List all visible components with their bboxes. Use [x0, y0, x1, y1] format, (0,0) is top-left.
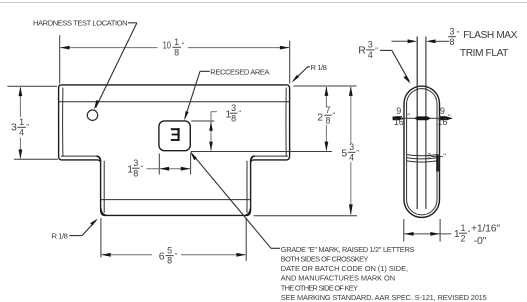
svg-text:R: R [358, 45, 366, 57]
front view outline [59, 85, 290, 216]
svg-text:": " [457, 29, 460, 38]
svg-text:1: 1 [460, 223, 465, 233]
page border top [0, 2, 527, 4]
svg-text:R 1/8: R 1/8 [52, 232, 68, 241]
svg-text:TRIM FLAT: TRIM FLAT [460, 48, 508, 59]
bar bottom face line right [254, 155, 289, 157]
svg-text:GRADE "E" MARK, RAISED 1/2" LE: GRADE "E" MARK, RAISED 1/2" LETTERS [281, 245, 415, 254]
corner arc tab bottom-right [245, 209, 250, 216]
svg-text:3: 3 [449, 26, 454, 36]
dimension 1 1/2 +1/16 -0 [404, 219, 501, 247]
dimension 6 5/8 [101, 218, 246, 266]
svg-text:9: 9 [396, 106, 401, 116]
R 1/8 bottom label [52, 218, 99, 240]
svg-text:2: 2 [317, 112, 323, 124]
svg-text:-0": -0" [474, 235, 487, 247]
corner arc tab bottom-left [101, 209, 106, 216]
svg-text:4: 4 [349, 152, 354, 162]
svg-text:3: 3 [231, 103, 236, 113]
svg-text:8: 8 [231, 113, 236, 123]
svg-text:THE OTHER SIDE OF KEY: THE OTHER SIDE OF KEY [281, 283, 358, 292]
svg-text:1: 1 [174, 37, 179, 47]
side view inner line [407, 89, 437, 215]
9/16 dimensions [393, 106, 453, 127]
svg-text:8: 8 [325, 115, 330, 125]
front view tab face line [101, 199, 251, 201]
svg-text:16: 16 [437, 117, 447, 127]
corner arc left step [97, 156, 101, 162]
svg-text:8: 8 [174, 47, 179, 57]
svg-text:5: 5 [341, 147, 347, 159]
dimension 5 3/4 [254, 87, 360, 216]
tab right face line [246, 161, 248, 213]
front view parting line [59, 101, 290, 103]
hardness test circle [87, 110, 97, 120]
svg-text:1: 1 [454, 228, 460, 240]
svg-text:4: 4 [368, 50, 373, 60]
svg-text:": " [238, 109, 241, 118]
svg-text:2: 2 [460, 233, 465, 243]
svg-text:": " [175, 251, 178, 260]
svg-text:8: 8 [167, 256, 172, 266]
R 1/8 top label [292, 63, 327, 83]
tab left face line [103, 161, 105, 213]
dimension 1 3/8 vertical (E box height) [191, 103, 241, 151]
left end face line [62, 88, 64, 157]
svg-text:3: 3 [133, 158, 138, 168]
svg-text:AND MANUFACTURES MARK ON: AND MANUFACTURES MARK ON [281, 274, 395, 283]
svg-text:SEE MARKING STANDARD. AAR SPEC: SEE MARKING STANDARD. AAR SPEC. S-121, R… [281, 293, 487, 302]
dimension 3 1/4 [7, 86, 58, 159]
svg-text:": " [356, 148, 359, 157]
flash line left [416, 37, 418, 210]
bar bottom face line left [61, 155, 98, 157]
svg-text:": " [141, 164, 144, 173]
svg-text:DATE OR BATCH CODE ON (1) SIDE: DATE OR BATCH CODE ON (1) SIDE, [281, 264, 408, 273]
svg-text:3: 3 [368, 40, 373, 50]
right end face line [285, 88, 287, 157]
svg-text:1: 1 [19, 117, 24, 127]
flash line right [425, 37, 427, 210]
svg-text:7: 7 [325, 105, 330, 115]
svg-text:": " [182, 41, 185, 50]
side view outer outline [404, 86, 440, 217]
svg-text:BOTH SIDES OF CROSSKEY: BOTH SIDES OF CROSSKEY [281, 255, 369, 264]
svg-text:6: 6 [159, 250, 165, 262]
svg-text:10: 10 [163, 39, 171, 50]
svg-text:3: 3 [11, 122, 17, 134]
svg-text:FLASH MAX: FLASH MAX [463, 30, 518, 41]
dimension 2 7/8 [191, 86, 357, 152]
svg-text:3: 3 [427, 153, 431, 160]
svg-text:": " [26, 122, 29, 131]
svg-text:HARDNESS TEST LOCATION: HARDNESS TEST LOCATION [33, 18, 127, 27]
svg-text:": " [407, 112, 410, 121]
svg-text:R 1/8: R 1/8 [311, 63, 327, 72]
svg-text:8: 8 [449, 37, 454, 47]
recess lines on side view [407, 155, 437, 156]
flash max dimension [392, 26, 518, 59]
svg-text:": " [333, 111, 336, 120]
svg-text:RECCESED AREA: RECCESED AREA [210, 68, 270, 77]
dimension 10 1/8 [60, 35, 290, 83]
grade E note leader [190, 152, 280, 249]
svg-text:9: 9 [440, 106, 445, 116]
R 3/4 label [358, 40, 410, 84]
E mark glyph (reversed E) [171, 128, 180, 141]
corner arc right step [251, 156, 255, 162]
svg-text:16: 16 [394, 117, 404, 127]
svg-text:": " [448, 112, 451, 121]
svg-text:5: 5 [167, 245, 172, 255]
grade E note text [281, 245, 487, 302]
svg-text:": " [375, 45, 378, 54]
svg-text:3: 3 [349, 142, 354, 152]
svg-text:+1/16": +1/16" [471, 222, 500, 234]
svg-text:8: 8 [133, 168, 138, 178]
E mark box [159, 121, 190, 151]
svg-text:": " [443, 152, 446, 161]
tiny recess depth marks on side view [427, 152, 446, 172]
recessed area label [184, 68, 270, 121]
dimension 1 3/8 horizontal (E box width) [127, 154, 190, 179]
svg-text:4: 4 [19, 127, 24, 137]
hardness test label [33, 18, 137, 110]
